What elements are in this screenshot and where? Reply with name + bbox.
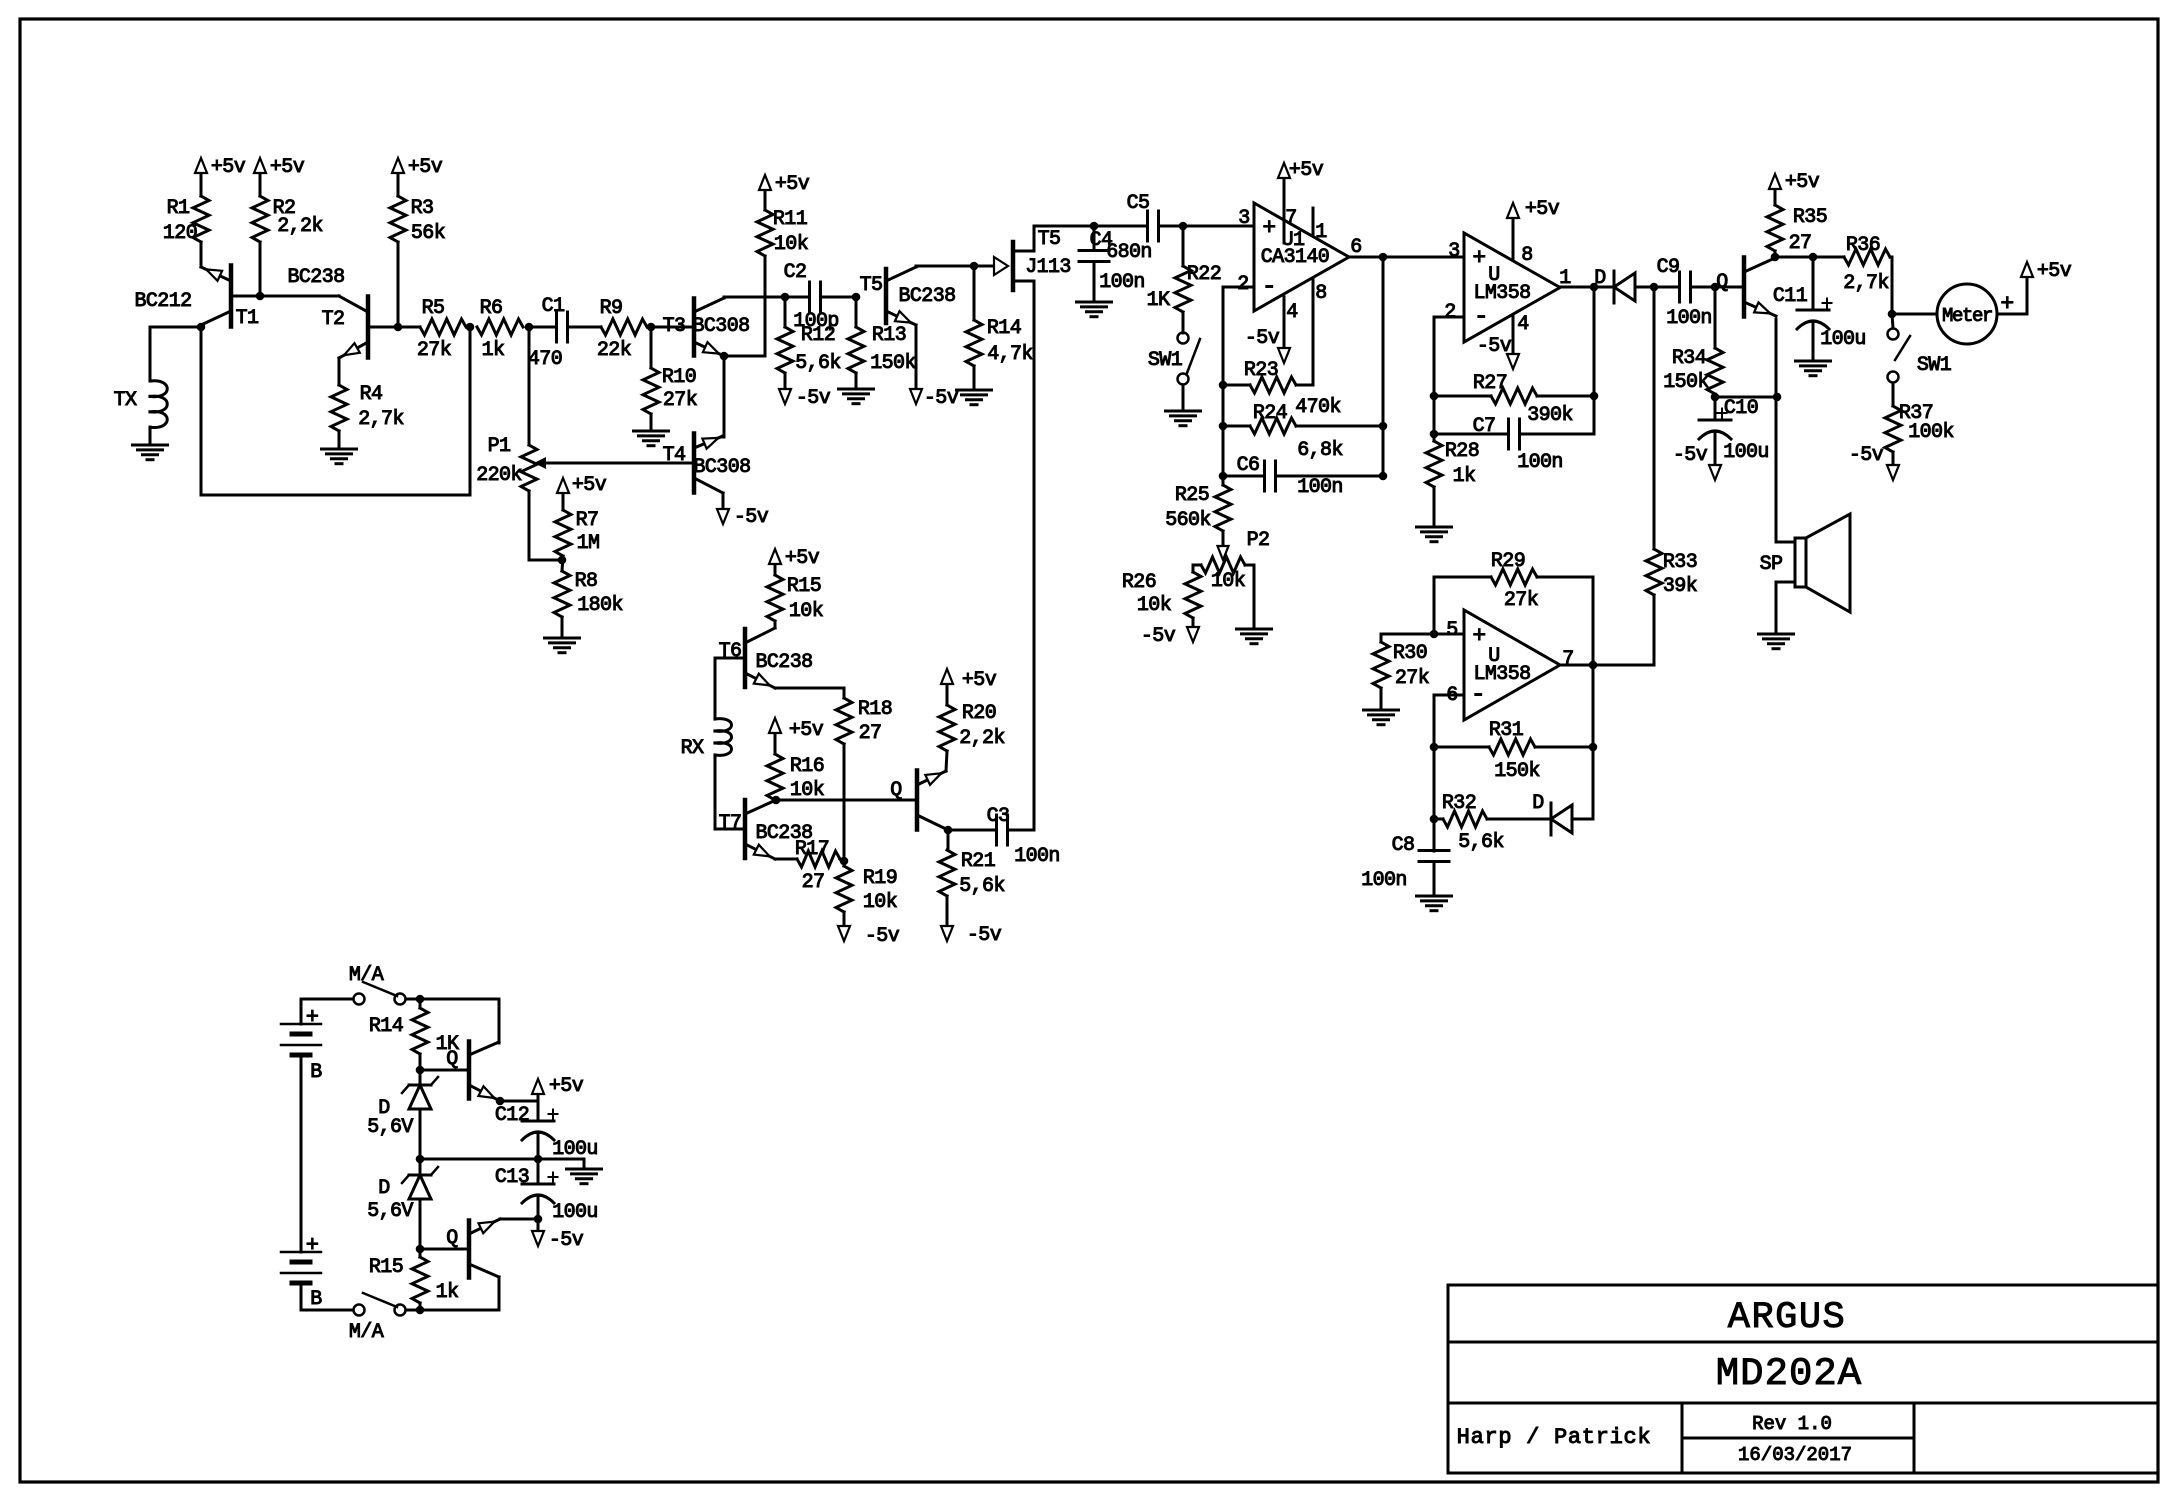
wire R12 -5v: [784, 373, 787, 390]
+5v rail R1: [200, 173, 203, 196]
svg-text:R6: R6: [480, 297, 503, 320]
wire R16-node: [775, 799, 776, 802]
svg-text:-5v: -5v: [1245, 327, 1280, 350]
resistor R11: [757, 210, 773, 256]
svg-text:10k: 10k: [1211, 570, 1245, 593]
svg-text:BC238: BC238: [755, 651, 812, 674]
ground R4: [338, 431, 341, 449]
svg-text:16/03/2017: 16/03/2017: [1738, 1444, 1852, 1466]
node T7 collector: [772, 796, 781, 805]
wire R27 right: [1537, 395, 1594, 398]
svg-text:R3: R3: [411, 197, 434, 220]
svg-text:SP: SP: [1760, 553, 1783, 576]
svg-text:R28: R28: [1445, 440, 1479, 463]
svg-text:2: 2: [1237, 273, 1248, 296]
wire TX top: [150, 326, 201, 329]
svg-text:+5v: +5v: [211, 156, 246, 179]
-5v T4: [722, 493, 725, 510]
svg-text:ARGUS: ARGUS: [1728, 1297, 1847, 1339]
-5v psu: [537, 1219, 540, 1232]
node R22: [1179, 222, 1188, 231]
transistor T2 BC238: [366, 297, 371, 358]
svg-text:560k: 560k: [1165, 509, 1211, 532]
svg-text:10k: 10k: [774, 233, 808, 256]
wire R24 left: [1223, 425, 1250, 428]
resistor R29: [1434, 576, 1491, 579]
svg-text:39k: 39k: [1663, 575, 1697, 598]
wire R1-T1 emitter: [200, 242, 203, 267]
svg-text:5,6V: 5,6V: [367, 1200, 413, 1223]
node J113 gate: [970, 262, 979, 271]
svg-text:1M: 1M: [577, 532, 600, 555]
capacitor C6: [1223, 475, 1264, 478]
potentiometer P1: [521, 445, 537, 491]
svg-text:R34: R34: [1672, 347, 1706, 370]
svg-text:R16: R16: [790, 755, 824, 778]
svg-text:+5v: +5v: [2037, 260, 2072, 283]
resistor R10: [643, 368, 659, 414]
wire R2-node: [259, 242, 262, 296]
wire Q collector: [946, 751, 947, 771]
svg-text:5: 5: [1446, 619, 1457, 642]
svg-text:-5v: -5v: [1477, 335, 1512, 358]
pin 4 -5v U2a: [1512, 315, 1515, 355]
wire Q1 base: [420, 1069, 469, 1072]
svg-text:470k: 470k: [1295, 396, 1341, 419]
svg-text:2,2k: 2,2k: [959, 727, 1005, 750]
svg-text:T6: T6: [719, 640, 742, 663]
wire rail-Q1: [498, 999, 501, 1043]
node U2a out: [1590, 283, 1599, 292]
svg-text:390k: 390k: [1527, 404, 1573, 427]
svg-text:150k: 150k: [1663, 371, 1709, 394]
svg-text:R18: R18: [858, 698, 892, 721]
resistor R7: [555, 510, 571, 556]
ground mid rail: [583, 1159, 586, 1169]
ground R14: [973, 366, 976, 390]
title mid divider: [1682, 1437, 1914, 1440]
resistor R15 psu: [412, 1257, 428, 1303]
svg-text:B: B: [310, 1061, 322, 1084]
svg-text:10k: 10k: [1137, 594, 1171, 617]
svg-text:+5v: +5v: [1785, 171, 1820, 194]
pin 7 +5v: [1283, 178, 1286, 243]
+5v R7: [562, 492, 565, 510]
resistor R33: [1646, 549, 1662, 595]
capacitor C7: [1434, 433, 1508, 436]
wire R31 left: [1434, 746, 1489, 749]
ground SW1: [1182, 385, 1185, 411]
resistor R14 psu: [419, 999, 422, 1008]
svg-text:R22: R22: [1187, 263, 1221, 286]
svg-text:1k: 1k: [436, 1281, 459, 1304]
svg-text:10k: 10k: [789, 600, 823, 623]
svg-text:Rev 1.0: Rev 1.0: [1752, 1413, 1832, 1435]
wire R22-SW1: [1182, 312, 1185, 333]
svg-text:100n: 100n: [1099, 271, 1145, 294]
svg-text:3: 3: [1448, 240, 1459, 263]
pin 4 -5v: [1283, 297, 1286, 349]
svg-text:-: -: [1474, 302, 1488, 331]
wire T3 collector: [723, 297, 726, 298]
svg-text:27k: 27k: [1504, 589, 1538, 612]
svg-text:R36: R36: [1846, 234, 1880, 257]
ground R13: [855, 373, 858, 389]
svg-text:Q: Q: [1716, 271, 1728, 294]
wire R15-rail: [419, 1303, 422, 1310]
wire D-C9: [1635, 286, 1679, 289]
resistor R2: [252, 196, 268, 242]
node C2/R12: [781, 293, 790, 302]
svg-text:BC308: BC308: [693, 456, 750, 479]
svg-text:5,6V: 5,6V: [367, 1116, 413, 1139]
svg-text:470: 470: [528, 348, 562, 371]
svg-text:4: 4: [1286, 301, 1297, 324]
ground SP: [1759, 633, 1794, 636]
svg-text:C8: C8: [1392, 834, 1415, 857]
wire P2 left-R26: [1193, 565, 1201, 572]
svg-text:-5v: -5v: [1673, 444, 1708, 467]
wire R18-R19: [843, 744, 846, 866]
svg-text:Q: Q: [446, 1048, 458, 1071]
wire R36-meter node: [1890, 257, 1892, 314]
svg-text:150k: 150k: [1494, 760, 1540, 783]
svg-text:27: 27: [859, 722, 882, 745]
wire R35-node: [1774, 251, 1777, 257]
svg-text:150k: 150k: [870, 352, 916, 375]
svg-text:7: 7: [1285, 207, 1296, 230]
svg-text:D: D: [1532, 792, 1543, 815]
wire R30 hor: [1381, 633, 1434, 636]
+5v psu: [537, 1094, 540, 1101]
wire R31 right: [1535, 746, 1593, 749]
wire T2 base to R5: [368, 326, 420, 329]
svg-text:P1: P1: [488, 435, 511, 458]
wire T2 emitter to R4: [338, 358, 341, 385]
svg-text:27k: 27k: [417, 339, 451, 362]
capacitor C11: [1812, 257, 1815, 310]
wire T5 emitter -5v: [915, 325, 918, 390]
resistor R13: [848, 327, 864, 373]
node R9/T3: [647, 323, 656, 332]
wire C12-midrail: [537, 1132, 540, 1159]
svg-text:T5: T5: [860, 274, 883, 297]
feedback loop wire: [201, 327, 470, 495]
svg-text:2,7k: 2,7k: [1843, 272, 1889, 295]
wire RX-T7: [714, 755, 717, 829]
svg-text:+: +: [1472, 623, 1485, 649]
+5v R20: [946, 684, 949, 705]
switch M/A bottom: [354, 1305, 365, 1316]
capacitor C10: [1699, 419, 1731, 422]
svg-text:-5v: -5v: [1141, 625, 1176, 648]
capacitor C5: [1094, 225, 1147, 228]
wire R13 stub: [855, 297, 858, 327]
resistor R16: [767, 754, 783, 800]
wire speaker top: [1776, 541, 1795, 544]
wire J113 drain top: [1034, 225, 1094, 228]
svg-text:+5v: +5v: [549, 1075, 584, 1098]
svg-text:R8: R8: [575, 570, 598, 593]
svg-text:CA3140: CA3140: [1261, 246, 1329, 269]
svg-text:R23: R23: [1244, 359, 1278, 382]
svg-text:100u: 100u: [1723, 441, 1769, 464]
title row divider 2: [1448, 1402, 2158, 1405]
wire R32-D2: [1487, 818, 1551, 821]
resistor R14: [966, 320, 982, 366]
svg-text:R5: R5: [422, 297, 445, 320]
svg-text:27k: 27k: [663, 389, 697, 412]
wire T7 emitter-R17: [775, 858, 797, 861]
svg-text:+5v: +5v: [1289, 159, 1324, 182]
svg-text:100u: 100u: [1820, 328, 1866, 351]
resistor R25: [1222, 476, 1225, 485]
wire node-meter: [1892, 313, 1937, 316]
-5v R12: [779, 389, 791, 404]
pin 2 wire U2a: [1434, 316, 1464, 319]
+5v rail R11: [764, 190, 767, 210]
wire U2a out: [1560, 286, 1614, 289]
svg-text:T3: T3: [663, 315, 686, 338]
svg-text:1: 1: [1559, 267, 1571, 290]
svg-text:R9: R9: [600, 297, 623, 320]
capacitor C3: [995, 815, 998, 845]
wire battery-switch: [301, 998, 353, 1001]
wire C5-U1: [1159, 225, 1254, 228]
svg-text:5,6k: 5,6k: [795, 352, 841, 375]
wire R22 stub: [1182, 226, 1185, 266]
capacitor C8: [1419, 849, 1449, 852]
svg-text:M/A: M/A: [349, 964, 384, 987]
wire T5 collector: [915, 266, 918, 267]
wire zener2-node: [419, 1199, 422, 1257]
svg-text:+5v: +5v: [270, 156, 305, 179]
battery B top: [281, 1023, 321, 1026]
resistor R1: [193, 196, 209, 242]
ground C8: [1433, 862, 1436, 896]
svg-text:C5: C5: [1127, 192, 1150, 215]
resistor R20: [939, 705, 955, 751]
svg-text:100n: 100n: [1361, 869, 1407, 892]
svg-text:5,6k: 5,6k: [1458, 831, 1504, 854]
switch M/A top: [354, 994, 365, 1005]
node U1 out: [1379, 253, 1388, 262]
svg-text:J113: J113: [1025, 256, 1071, 279]
svg-text:R4: R4: [360, 383, 383, 406]
title col divider 1: [1681, 1403, 1684, 1473]
svg-text:R24: R24: [1253, 402, 1287, 425]
wire R9-T3 base: [651, 326, 694, 329]
node R5/R6: [466, 323, 475, 332]
resistor R27: [1491, 388, 1537, 404]
capacitor C9: [1678, 272, 1681, 302]
transistor T7 BC238: [743, 800, 748, 858]
bottom rail wire: [406, 1309, 499, 1312]
svg-text:D: D: [378, 1177, 389, 1200]
svg-text:+5v: +5v: [962, 669, 997, 692]
wire pin5-R29: [1433, 577, 1436, 634]
wire R12 stub: [784, 297, 787, 327]
resistor R22: [1175, 266, 1191, 312]
ground C11: [1812, 322, 1815, 361]
ground R8: [561, 617, 564, 638]
resistor R32: [1443, 811, 1487, 827]
svg-text:4: 4: [1517, 313, 1528, 336]
pin 2 wire: [1223, 286, 1254, 289]
svg-text:2,2k: 2,2k: [277, 215, 323, 238]
svg-text:+: +: [306, 1005, 319, 1030]
-5v R19: [843, 912, 846, 927]
+5v R15: [774, 564, 777, 575]
svg-text:-: -: [1262, 272, 1276, 301]
node T2/R3: [394, 323, 403, 332]
wire T6 emitter: [775, 688, 844, 698]
svg-text:C2: C2: [784, 261, 807, 284]
transistor T3 BC308: [692, 299, 697, 356]
wire C9 bus down: [1653, 287, 1656, 549]
transistor Q mixer: [915, 771, 920, 830]
svg-text:-5v: -5v: [549, 1229, 584, 1252]
svg-text:R21: R21: [961, 850, 996, 873]
svg-text:BC238: BC238: [898, 285, 955, 308]
-5v R26: [1192, 618, 1195, 628]
pin 8 stub: [1312, 278, 1315, 385]
op-amp U2b LM358: [1464, 610, 1560, 720]
wire C3-J113: [1008, 829, 1034, 832]
svg-text:10k: 10k: [863, 891, 897, 914]
svg-text:R26: R26: [1122, 571, 1156, 594]
svg-text:680n: 680n: [1106, 241, 1152, 264]
node T1 collector: [197, 323, 206, 332]
wire switch-R14 node: [406, 998, 499, 1001]
svg-text:BC212: BC212: [134, 290, 191, 313]
mid rail wire: [420, 1158, 584, 1161]
svg-text:8: 8: [1521, 244, 1532, 267]
inverting bus U2b: [1433, 695, 1436, 851]
svg-text:T1: T1: [236, 307, 259, 330]
wire R33-output: [1653, 595, 1656, 665]
svg-text:+5v: +5v: [785, 547, 820, 570]
resistor R35: [1767, 205, 1783, 251]
svg-text:T2: T2: [322, 308, 345, 331]
wire node-R10: [650, 327, 653, 368]
node R6/C1: [525, 323, 534, 332]
ground C4: [1093, 262, 1096, 302]
title row divider 1: [1448, 1341, 2158, 1344]
zener D 5,6V top: [409, 1084, 431, 1087]
transistor Q1 psu: [467, 1042, 472, 1099]
transistor T6 BC238: [743, 629, 748, 687]
svg-text:56k: 56k: [411, 222, 445, 245]
svg-text:+: +: [1262, 215, 1275, 241]
-5v R21: [946, 896, 949, 927]
wire SW1-R37: [1892, 383, 1895, 406]
svg-text:RX: RX: [681, 737, 704, 760]
wire T6 base: [715, 657, 745, 660]
wire battery-switch2: [300, 1283, 303, 1310]
wire C10 node: [1715, 396, 1777, 399]
svg-text:R13: R13: [872, 324, 906, 347]
wire Q1 emitter node: [500, 1100, 538, 1103]
svg-text:-5v: -5v: [865, 925, 900, 948]
svg-text:7: 7: [1562, 648, 1573, 671]
+5v rail R3: [397, 173, 400, 196]
svg-text:C3: C3: [987, 805, 1010, 828]
transistor T1 BC212: [229, 266, 234, 327]
resistor R15: [767, 575, 783, 621]
speaker SP: [1795, 538, 1806, 587]
svg-text:C13: C13: [495, 1166, 529, 1189]
wire R24 right: [1296, 425, 1383, 428]
wire gate-R14: [973, 266, 976, 320]
resistor R6: [477, 319, 523, 335]
resistor R18: [836, 698, 852, 744]
resistor R36: [1844, 249, 1890, 265]
svg-text:R14: R14: [369, 1015, 403, 1038]
wire R23 left: [1223, 384, 1250, 387]
svg-text:B: B: [310, 1288, 322, 1311]
svg-text:C9: C9: [1657, 256, 1680, 279]
wire R23 right: [1296, 384, 1313, 387]
svg-text:+: +: [306, 1233, 319, 1258]
wire R11 crossover: [764, 256, 767, 356]
switch SW1 meter: [1892, 314, 1893, 328]
wire U1 out: [1349, 256, 1464, 259]
svg-text:27: 27: [1789, 232, 1812, 255]
svg-text:100u: 100u: [552, 1201, 598, 1224]
resistor R9: [601, 319, 647, 335]
node U2b out: [1589, 661, 1598, 670]
resistor R31: [1489, 739, 1535, 755]
node R7/R8: [558, 556, 567, 565]
svg-text:100n: 100n: [1517, 451, 1563, 474]
svg-text:22k: 22k: [597, 339, 631, 362]
svg-text:Meter: Meter: [1942, 305, 1992, 327]
wire R34-C10: [1714, 394, 1717, 420]
svg-text:R17: R17: [795, 838, 829, 861]
resistor R37: [1885, 406, 1901, 452]
node C11: [1809, 253, 1818, 262]
resistor R5: [420, 319, 466, 335]
svg-text:3: 3: [1238, 207, 1249, 230]
node C4: [1090, 222, 1099, 231]
svg-text:D: D: [1594, 267, 1605, 290]
svg-text:6: 6: [1350, 236, 1361, 259]
svg-text:R20: R20: [962, 702, 996, 725]
svg-text:-5v: -5v: [796, 387, 831, 410]
wire C4 stub: [1093, 226, 1096, 250]
svg-text:T7: T7: [719, 812, 742, 835]
svg-text:6,8k: 6,8k: [1297, 439, 1343, 462]
wire T4 collector: [722, 436, 725, 437]
svg-text:-5v: -5v: [924, 387, 959, 410]
wire U2b out: [1560, 664, 1654, 667]
svg-text:R25: R25: [1175, 484, 1209, 507]
wire meter-+5v: [1997, 313, 2027, 316]
node R17/R19: [840, 857, 849, 866]
+5v R35: [1774, 189, 1777, 205]
svg-text:5,6k: 5,6k: [959, 875, 1005, 898]
svg-text:C12: C12: [495, 1104, 529, 1127]
svg-text:C11: C11: [1773, 285, 1808, 308]
resistor R19: [836, 866, 852, 912]
wire R11-T3emitter: [724, 355, 765, 358]
svg-text:1: 1: [1315, 221, 1327, 244]
node R34: [1711, 283, 1720, 292]
svg-text:-5v: -5v: [1849, 444, 1884, 467]
wire R3-node: [397, 242, 400, 327]
svg-text:100k: 100k: [1908, 421, 1954, 444]
